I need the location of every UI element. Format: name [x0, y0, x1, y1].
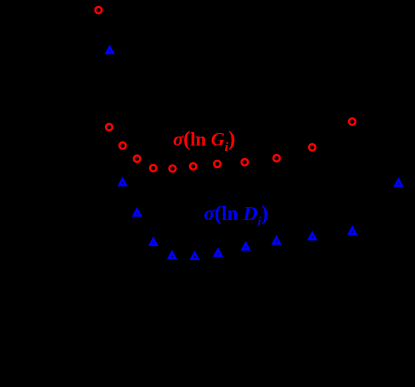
red circle marker 8 [214, 161, 220, 167]
blue triangle marker 9 [273, 238, 279, 244]
blue triangle marker 8 [243, 243, 249, 249]
blue triangle marker 1 [107, 47, 113, 53]
red circle marker 7 [190, 163, 196, 169]
red circle marker 3 [119, 142, 125, 148]
red circle marker 1 [95, 7, 101, 13]
red circle marker 6 [169, 165, 175, 171]
blue triangle marker 2 [119, 179, 125, 185]
blue triangle marker 3 [134, 210, 140, 216]
blue triangle marker 12 [395, 180, 401, 186]
red circle marker 4 [134, 156, 140, 162]
blue triangle marker 11 [349, 228, 355, 234]
blue triangle marker 4 [150, 239, 156, 245]
red circle marker 10 [273, 155, 279, 161]
red circle marker 11 [309, 144, 315, 150]
red circle marker 5 [150, 165, 156, 171]
blue triangle marker 5 [169, 252, 175, 258]
blue triangle marker 10 [309, 233, 315, 239]
red circle marker 2 [106, 124, 112, 130]
blue triangle marker 7 [215, 250, 221, 256]
red circle marker 12 [349, 118, 355, 124]
blue triangle marker 6 [192, 253, 198, 259]
red circle marker 9 [242, 159, 248, 165]
